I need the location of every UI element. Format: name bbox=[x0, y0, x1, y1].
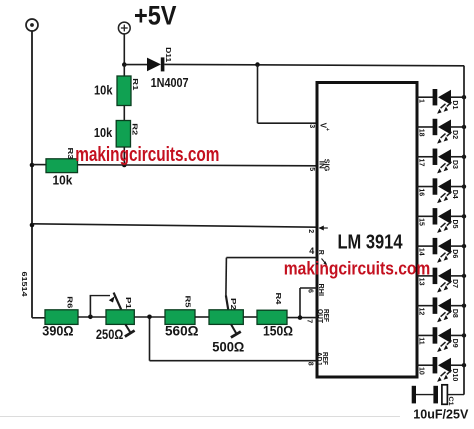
svg-text:14: 14 bbox=[418, 248, 425, 256]
P1 wiper arrow bbox=[109, 293, 121, 310]
svg-text:D3: D3 bbox=[451, 160, 458, 169]
wire left rail to pin 5 (through R3) bbox=[32, 165, 317, 166]
svg-text:560Ω: 560Ω bbox=[165, 324, 199, 339]
wire D6 anode to rail bbox=[451, 245, 465, 247]
svg-text:+5V: +5V bbox=[134, 1, 177, 31]
wire D5 anode to rail bbox=[451, 215, 465, 217]
node rail junction D6 bbox=[462, 244, 466, 248]
input terminal J1 bbox=[26, 19, 38, 31]
node rail junction D5 bbox=[462, 214, 466, 218]
LED D5 bbox=[433, 208, 452, 233]
svg-text:R3: R3 bbox=[66, 148, 73, 160]
pin 1 label bbox=[418, 99, 425, 103]
svg-text:7: 7 bbox=[306, 319, 313, 323]
label D4 bbox=[451, 190, 458, 199]
capacitor C1 bbox=[412, 385, 448, 405]
wire P1 to R5 bbox=[134, 316, 165, 318]
node pin6/pin7 junction bbox=[298, 315, 303, 320]
label D5 bbox=[451, 220, 458, 229]
svg-text:150Ω: 150Ω bbox=[263, 324, 293, 339]
P2 unused tap bbox=[231, 324, 241, 337]
svg-text:C1: C1 bbox=[447, 397, 454, 406]
svg-text:250Ω: 250Ω bbox=[96, 327, 124, 342]
pin 12 label bbox=[418, 307, 425, 315]
node rail junction D7 bbox=[462, 274, 466, 278]
svg-text:8: 8 bbox=[306, 362, 313, 366]
LED D10 bbox=[433, 357, 452, 382]
svg-text:11: 11 bbox=[418, 337, 425, 345]
label R3 bbox=[66, 148, 73, 160]
svg-text:R6: R6 bbox=[66, 296, 73, 308]
pin 17 label bbox=[418, 159, 425, 167]
label 1N4007 bbox=[151, 75, 189, 90]
svg-text:D2: D2 bbox=[451, 130, 458, 139]
LED D7 bbox=[433, 268, 452, 293]
resistor R2 bbox=[116, 121, 130, 148]
node left rail / pin2 wire junction bbox=[30, 223, 35, 228]
node top wire / V+ branch bbox=[255, 62, 260, 67]
wire pin 10 stub bbox=[417, 364, 433, 366]
wire D7 anode to rail bbox=[451, 275, 465, 277]
wire pin 1 stub bbox=[417, 96, 433, 98]
label R1 bbox=[131, 78, 138, 90]
wire D4 anode to rail bbox=[451, 186, 465, 188]
wire D10 anode to rail bbox=[451, 364, 465, 366]
LED D8 bbox=[433, 297, 452, 322]
svg-text:5: 5 bbox=[308, 167, 315, 171]
wire D3 anode to rail bbox=[451, 156, 465, 158]
pin 16 label bbox=[418, 188, 425, 196]
label P1 bbox=[124, 297, 131, 309]
label D11 bbox=[164, 47, 173, 62]
svg-text:3: 3 bbox=[308, 124, 315, 128]
wire R1 to R2 bbox=[123, 106, 125, 121]
P2 wiper contact bbox=[226, 296, 228, 310]
wire pin 17 stub bbox=[417, 156, 433, 158]
wire pin 18 stub bbox=[417, 126, 433, 128]
pin REF OUT label bbox=[316, 309, 329, 324]
label D6 bbox=[451, 249, 458, 258]
node rail junction D2 bbox=[462, 125, 466, 129]
label P2 bbox=[229, 298, 236, 310]
wire diode cathode to right rail bbox=[164, 64, 464, 65]
LED D2 bbox=[433, 119, 452, 144]
node rail junction D4 bbox=[462, 184, 466, 188]
svg-text:IN: IN bbox=[317, 161, 324, 169]
wire +5V node to R1 bbox=[123, 65, 125, 76]
pin 13 label bbox=[418, 278, 425, 286]
svg-text:15: 15 bbox=[418, 218, 425, 226]
potentiometer P1 bbox=[106, 310, 134, 325]
svg-text:61514: 61514 bbox=[20, 272, 29, 298]
resistor R3 bbox=[46, 159, 78, 173]
label D8 bbox=[451, 309, 458, 318]
wire R5 to P2 bbox=[195, 316, 209, 318]
resistor R5 bbox=[165, 310, 195, 325]
label 500ohm bbox=[212, 340, 244, 355]
node P1/R5/REFADJ junction bbox=[147, 315, 152, 320]
potentiometer P2 bbox=[209, 310, 243, 325]
svg-text:10: 10 bbox=[418, 367, 425, 375]
watermark makingcircuits.com (upper) bbox=[75, 144, 219, 166]
label 250ohm bbox=[96, 327, 124, 342]
svg-text:D11: D11 bbox=[164, 47, 173, 62]
wire R6 to P1 bbox=[78, 316, 106, 318]
svg-text:390Ω: 390Ω bbox=[42, 324, 73, 339]
node rail junction D1 bbox=[462, 95, 466, 99]
svg-text:17: 17 bbox=[418, 159, 425, 167]
svg-text:D8: D8 bbox=[451, 309, 458, 318]
label R2 bbox=[131, 123, 138, 135]
svg-text:D7: D7 bbox=[451, 279, 458, 288]
resistor R4 bbox=[257, 310, 287, 324]
svg-text:makingcircuits.com: makingcircuits.com bbox=[75, 144, 219, 166]
label 150ohm bbox=[263, 324, 293, 339]
scan artifact line bbox=[0, 416, 400, 418]
LED D6 bbox=[433, 238, 452, 263]
svg-text:LM 3914: LM 3914 bbox=[338, 231, 403, 254]
wire V+ branch to pin 3 bbox=[258, 122, 318, 124]
node rail junction D3 bbox=[462, 155, 466, 159]
wire R2 to signal node bbox=[123, 147, 125, 165]
label 390ohm bbox=[42, 324, 73, 339]
label D2 bbox=[451, 130, 458, 139]
svg-text:R1: R1 bbox=[131, 78, 138, 90]
label C1 bbox=[447, 397, 454, 406]
pin 11 label bbox=[418, 337, 425, 345]
label R6 bbox=[66, 296, 73, 308]
wire D8 anode to rail bbox=[451, 305, 465, 307]
svg-text:2: 2 bbox=[307, 229, 314, 233]
watermark makingcircuits.com (lower) bbox=[284, 258, 431, 279]
label D10 bbox=[451, 368, 458, 381]
label 560ohm bbox=[165, 324, 199, 339]
svg-text:R4: R4 bbox=[274, 293, 281, 305]
svg-text:13: 13 bbox=[418, 278, 425, 286]
wire D1 anode to rail bbox=[451, 96, 465, 98]
pin 2 label bbox=[307, 229, 314, 233]
pin 10 label bbox=[418, 367, 425, 375]
LED D1 bbox=[433, 89, 452, 114]
pin REF ADJ label bbox=[315, 352, 328, 366]
wire P2 to R4 bbox=[243, 316, 257, 318]
svg-text:D4: D4 bbox=[451, 190, 458, 199]
pin 8 label bbox=[306, 362, 313, 366]
pin 14 label bbox=[418, 248, 425, 256]
label D1 bbox=[451, 100, 458, 109]
svg-text:16: 16 bbox=[418, 188, 425, 196]
label R5 bbox=[184, 296, 191, 308]
svg-text:D6: D6 bbox=[451, 249, 458, 258]
IC U1 LM3914 box bbox=[317, 83, 417, 378]
svg-text:18: 18 bbox=[418, 129, 425, 137]
label LM 3914 bbox=[338, 231, 403, 254]
wire pin 4 to P2 wiper bbox=[226, 258, 317, 296]
svg-text:R2: R2 bbox=[131, 123, 138, 135]
wire right rail bbox=[463, 66, 465, 395]
wire pin 16 stub bbox=[417, 186, 433, 188]
svg-text:10uF/25V: 10uF/25V bbox=[413, 407, 469, 421]
wire R4 to pin 7 bbox=[287, 317, 317, 319]
svg-text:R: R bbox=[317, 250, 324, 255]
wire +5V terminal to node bbox=[123, 34, 125, 65]
svg-text:10k: 10k bbox=[94, 82, 113, 97]
label 61514 bbox=[20, 272, 29, 298]
pin 4 label bbox=[309, 246, 314, 256]
svg-text:RHI: RHI bbox=[317, 284, 324, 297]
node rail junction D8 bbox=[462, 303, 466, 307]
pin 15 label bbox=[418, 218, 425, 226]
svg-text:10k: 10k bbox=[53, 174, 73, 188]
node R2/R3/SIG junction bbox=[122, 163, 127, 168]
svg-text:500Ω: 500Ω bbox=[212, 340, 244, 355]
wire pin 13 stub bbox=[417, 275, 433, 277]
wire REF ADJ to divider tap bbox=[150, 318, 318, 361]
wire V+ branch down bbox=[257, 65, 259, 124]
svg-text:P2: P2 bbox=[229, 298, 236, 310]
svg-text:4: 4 bbox=[309, 246, 314, 256]
svg-text:+: + bbox=[324, 128, 330, 131]
svg-text:R5: R5 bbox=[184, 296, 191, 308]
pin RHI label bbox=[317, 284, 324, 297]
wire left rail to R6 bbox=[32, 317, 45, 319]
wire D9 anode to rail bbox=[451, 334, 465, 336]
pin 5 label bbox=[308, 167, 315, 171]
label 10uF/25V bbox=[413, 407, 469, 421]
svg-text:makingcircuits.com: makingcircuits.com bbox=[284, 258, 431, 279]
svg-text:1N4007: 1N4007 bbox=[151, 75, 189, 90]
pin SIG IN label bbox=[317, 159, 329, 172]
svg-text:12: 12 bbox=[418, 307, 425, 315]
label +5V bbox=[134, 1, 177, 31]
svg-text:ADJ: ADJ bbox=[315, 352, 322, 365]
label D7 bbox=[451, 279, 458, 288]
svg-text:OUT: OUT bbox=[316, 309, 323, 324]
wire left rail to pin 2 bbox=[32, 224, 317, 227]
label 10k (R1) bbox=[94, 82, 113, 97]
resistor R1 bbox=[117, 76, 131, 106]
svg-text:D1: D1 bbox=[451, 100, 458, 109]
label 10k (R3) bbox=[53, 174, 73, 188]
label D9 bbox=[451, 339, 458, 348]
wire node to diode anode bbox=[124, 64, 147, 66]
svg-text:1: 1 bbox=[418, 99, 425, 103]
resistor R6 bbox=[45, 310, 78, 325]
pin 7 label bbox=[306, 319, 313, 323]
wire C1 to rail bbox=[448, 394, 465, 396]
+5V supply terminal bbox=[118, 22, 130, 34]
diode D11 bbox=[147, 57, 164, 71]
LED D4 bbox=[433, 178, 452, 203]
wire D2 anode to rail bbox=[451, 126, 465, 128]
svg-text:D5: D5 bbox=[451, 220, 458, 229]
pin 3 label bbox=[308, 124, 315, 128]
node left rail / R3 junction bbox=[30, 163, 35, 168]
svg-text:P1: P1 bbox=[124, 297, 131, 309]
label 10k (R2) bbox=[94, 125, 113, 140]
svg-text:10k: 10k bbox=[94, 125, 113, 140]
label D3 bbox=[451, 160, 458, 169]
pin 4 RLO symbol bbox=[317, 250, 327, 265]
pin 2 V- arrow symbol bbox=[319, 226, 328, 231]
wire pin 15 stub bbox=[417, 215, 433, 217]
node rail junction D10 bbox=[462, 363, 466, 367]
svg-text:6: 6 bbox=[306, 289, 313, 293]
wire pin 6 jog to REF OUT node bbox=[300, 288, 317, 318]
svg-text:D10: D10 bbox=[451, 368, 458, 381]
node +5V / D11 / R1 bbox=[122, 62, 127, 67]
node R6/P1/wiper junction bbox=[88, 315, 93, 320]
node rail junction D9 bbox=[462, 333, 466, 337]
wire pin 14 stub bbox=[417, 245, 433, 247]
pin V+ label bbox=[319, 123, 330, 131]
wire pin 12 stub bbox=[417, 305, 433, 307]
wire left rail bbox=[31, 31, 33, 318]
wire pin 11 stub bbox=[417, 334, 433, 336]
LED D9 bbox=[433, 327, 452, 352]
label R4 bbox=[274, 293, 281, 305]
P1 unused tap bbox=[125, 324, 135, 336]
wire P1 wiper loop bbox=[90, 296, 110, 317]
svg-text:D9: D9 bbox=[451, 339, 458, 348]
LED D3 bbox=[433, 149, 452, 174]
pin 6 label bbox=[306, 289, 313, 293]
pin 18 label bbox=[418, 129, 425, 137]
